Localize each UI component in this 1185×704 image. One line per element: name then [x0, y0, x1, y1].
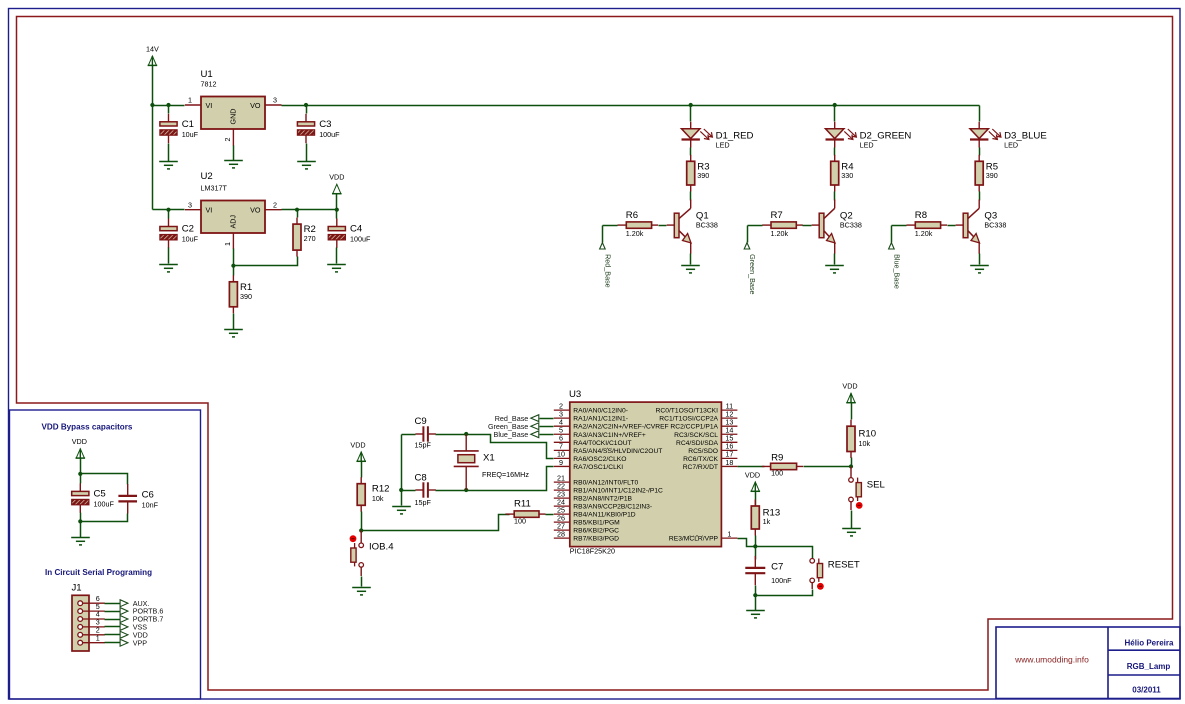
- svg-text:R6: R6: [626, 210, 638, 221]
- resistor R11: [505, 498, 545, 525]
- wire IOB.4 to ground: [361, 577, 363, 587]
- power VDD bypass: [72, 437, 87, 458]
- svg-text:VDD: VDD: [350, 440, 365, 449]
- junction IOB.4 node: [359, 528, 363, 532]
- output terminal VPP: [120, 638, 147, 647]
- svg-text:VI: VI: [206, 206, 213, 215]
- wire RESET bottom stem: [811, 583, 813, 589]
- svg-text:RA4/T0CKI/C1OUT: RA4/T0CKI/C1OUT: [573, 440, 631, 447]
- svg-text:Hélio Pereira: Hélio Pereira: [1125, 639, 1174, 648]
- svg-text:10uF: 10uF: [182, 130, 199, 139]
- svg-text:BC338: BC338: [696, 221, 718, 230]
- wire down to Green_Base terminal: [747, 226, 749, 243]
- svg-text:X1: X1: [483, 452, 495, 463]
- wire VDD to R10: [851, 403, 853, 420]
- bottom-left sub panel border (blue): [10, 410, 201, 699]
- svg-text:C8: C8: [415, 473, 427, 484]
- svg-text:RB6/KBI2/PGC: RB6/KBI2/PGC: [573, 528, 619, 535]
- wire D3_BLUE to R5: [979, 148, 981, 156]
- resistor R3: [687, 155, 710, 192]
- ground Q3: [970, 266, 989, 273]
- svg-text:C9: C9: [415, 416, 427, 427]
- wire C9 to X1 top: [436, 434, 467, 436]
- svg-text:270: 270: [304, 234, 316, 243]
- svg-text:14V: 14V: [146, 44, 159, 53]
- wire C5 to bypass bottom: [80, 513, 82, 522]
- wire pin 18 to R9: [738, 466, 765, 468]
- wire VDD to bypass node: [80, 459, 82, 474]
- junction 14V rail: [150, 103, 154, 107]
- regulator U2 LM317T: [185, 171, 282, 249]
- power VDD R12: [350, 440, 366, 461]
- junction SEL node: [849, 464, 853, 468]
- svg-text:2: 2: [273, 200, 277, 209]
- svg-text:100: 100: [514, 516, 526, 525]
- svg-text:100uF: 100uF: [350, 235, 371, 244]
- svg-text:7812: 7812: [201, 80, 217, 89]
- wire rail to D1_RED: [690, 106, 692, 122]
- wire IOB.4 bottom stem: [360, 567, 362, 576]
- output terminal Blue_Base: [494, 430, 539, 439]
- wire J1 pin 4: [105, 619, 121, 621]
- ground Q2: [825, 266, 844, 273]
- resistor R5: [975, 155, 998, 192]
- ground C3: [297, 162, 316, 169]
- title block frame: [996, 627, 1180, 699]
- svg-text:RA7/OSC1/CLKI: RA7/OSC1/CLKI: [573, 464, 623, 471]
- svg-text:RA6/OSC2/CLKO: RA6/OSC2/CLKO: [573, 456, 626, 463]
- wire to U2 VI: [153, 209, 185, 211]
- input terminal Blue_Base: [889, 243, 902, 289]
- wire R8 to base: [948, 225, 956, 227]
- wire terminal to R7: [748, 225, 763, 227]
- wire X1 to OSC2 pin 10: [467, 435, 554, 459]
- wire C1 to ground: [168, 144, 170, 162]
- svg-text:VDD Bypass capacitors: VDD Bypass capacitors: [42, 423, 133, 432]
- wire J1 pin 5: [105, 611, 121, 613]
- resistor R10: [847, 420, 876, 458]
- svg-text:FREQ=16MHz: FREQ=16MHz: [482, 470, 529, 479]
- input terminal Green_Base: [744, 243, 757, 295]
- svg-text:9: 9: [559, 458, 563, 467]
- wire terminal to R6: [603, 225, 618, 227]
- svg-text:PIC18F25K20: PIC18F25K20: [570, 546, 615, 555]
- wire C4 to ground: [336, 248, 338, 264]
- svg-text:1.20k: 1.20k: [771, 229, 789, 238]
- svg-text:RB3/AN9/CCP2B/C12IN3-: RB3/AN9/CCP2B/C12IN3-: [573, 504, 652, 511]
- resistor R1: [229, 275, 252, 313]
- svg-text:U3: U3: [569, 389, 581, 400]
- junction rail col 2: [833, 103, 837, 107]
- wire to C8 left: [402, 490, 416, 492]
- wire C9-C8 left trunk: [401, 435, 403, 491]
- wire R9 to SEL node: [804, 466, 852, 468]
- wire R1 to ground: [233, 314, 235, 330]
- wire R2 bottom to ADJ: [234, 257, 298, 266]
- svg-text:Green_Base: Green_Base: [748, 254, 757, 294]
- svg-text:LED: LED: [1004, 141, 1018, 150]
- svg-text:BC338: BC338: [840, 221, 862, 230]
- wire D2_GREEN to R4: [834, 148, 836, 156]
- junction X1 bottom: [464, 488, 468, 492]
- svg-text:BC338: BC338: [984, 221, 1006, 230]
- ground IOB.4: [352, 588, 371, 595]
- wire R11 to pin 25: [546, 514, 554, 516]
- wire Q1 emitter to ground: [690, 254, 692, 265]
- LED D1_RED: [682, 122, 754, 150]
- svg-text:C3: C3: [319, 119, 331, 130]
- wire U1 GND to ground: [233, 146, 235, 161]
- svg-text:RC4/SDI/SDA: RC4/SDI/SDA: [676, 440, 719, 447]
- wire SEL stem: [850, 466, 852, 477]
- junction C2 tap: [166, 208, 170, 212]
- wire C8 to X1 bottom: [436, 490, 467, 492]
- wire J1 pin 6: [105, 603, 121, 605]
- wire IOB.4 node to R11: [362, 515, 510, 531]
- svg-text:U2: U2: [201, 171, 213, 182]
- svg-text:1: 1: [96, 633, 100, 642]
- wire to C3: [306, 106, 308, 114]
- capacitor C7: [745, 556, 792, 585]
- wire to C1: [168, 106, 170, 114]
- svg-text:10uF: 10uF: [182, 235, 199, 244]
- ground bypass: [71, 538, 90, 545]
- wire to C2: [168, 210, 170, 219]
- resistor R2: [293, 218, 316, 257]
- wire R10 to SEL node: [851, 458, 853, 467]
- svg-text:U1: U1: [201, 69, 213, 80]
- LED D2_GREEN: [826, 122, 912, 150]
- svg-text:SEL: SEL: [867, 479, 886, 490]
- svg-text:RESET: RESET: [828, 560, 860, 571]
- wire Blue_Base to pin 5: [540, 434, 554, 436]
- svg-text:C6: C6: [142, 489, 154, 500]
- wire R3 to Q1 collector: [690, 192, 692, 201]
- svg-text:RC1/T1OSI/CCP2A: RC1/T1OSI/CCP2A: [659, 416, 718, 423]
- wire MCLR node to RESET: [756, 547, 813, 559]
- microcontroller U3 PIC18F25K20: [554, 389, 738, 556]
- svg-text:Blue_Base: Blue_Base: [494, 430, 529, 439]
- resistor R7: [762, 210, 803, 238]
- transistor Q2 BC338: [812, 200, 862, 254]
- capacitor C8: [415, 473, 436, 507]
- svg-text:1: 1: [727, 529, 731, 538]
- wire down to Blue_Base terminal: [891, 226, 893, 243]
- wire to U1 VI: [153, 105, 185, 107]
- capacitor C1: [160, 114, 199, 143]
- svg-text:10k: 10k: [859, 439, 871, 448]
- wire to C4: [336, 210, 338, 219]
- wire D1_RED to R3: [690, 148, 692, 156]
- wire X1 to OSC1 pin 9: [467, 467, 554, 491]
- svg-text:390: 390: [240, 292, 252, 301]
- svg-text:VDD: VDD: [329, 173, 344, 182]
- svg-text:330: 330: [841, 171, 853, 180]
- svg-text:28: 28: [557, 529, 565, 538]
- svg-text:C5: C5: [94, 489, 106, 500]
- ground R1: [224, 330, 243, 337]
- svg-text:RA0/AN0/C12IN0-: RA0/AN0/C12IN0-: [573, 408, 628, 415]
- wire Red_Base to pin 3: [540, 418, 554, 420]
- push button IOB.4: [350, 535, 364, 567]
- svg-text:IOB.4: IOB.4: [369, 541, 394, 552]
- wire MCLR node to C7: [755, 547, 757, 560]
- capacitor C4: [328, 219, 371, 248]
- wire pin 1 to MCLR node: [738, 539, 756, 547]
- svg-text:VDD: VDD: [745, 470, 760, 479]
- junction rail col 1: [689, 103, 693, 107]
- wire J1 pin 3: [105, 626, 121, 628]
- svg-text:2: 2: [223, 138, 232, 142]
- svg-text:LM317T: LM317T: [201, 184, 228, 193]
- junction bypass top: [78, 472, 82, 476]
- crystal X1: [454, 434, 530, 490]
- svg-text:1.20k: 1.20k: [915, 229, 933, 238]
- svg-text:VPP: VPP: [133, 638, 148, 647]
- svg-text:R11: R11: [514, 498, 531, 509]
- svg-text:VDD: VDD: [842, 382, 857, 391]
- svg-text:VI: VI: [206, 101, 213, 110]
- wire R6 to base: [659, 225, 667, 227]
- junction MCLR node: [753, 544, 757, 548]
- svg-text:RC5/SDO: RC5/SDO: [688, 448, 718, 455]
- svg-text:Red_Base: Red_Base: [603, 254, 612, 288]
- wire R7 to base: [803, 225, 812, 227]
- wire RESET to C7 bottom: [756, 590, 813, 596]
- junction R2 top: [295, 208, 299, 212]
- capacitor C3: [297, 114, 340, 143]
- wire trunk down to U2: [152, 106, 154, 210]
- svg-text:100uF: 100uF: [319, 130, 340, 139]
- output terminal AUX.: [120, 599, 149, 608]
- resistor R12: [357, 477, 389, 512]
- regulator U1 7812: [185, 69, 282, 146]
- output terminal VSS: [120, 623, 147, 632]
- push button SEL: [849, 478, 863, 509]
- wire Q2 emitter to ground: [834, 254, 836, 265]
- svg-text:Blue_Base: Blue_Base: [892, 254, 901, 289]
- wire U2 VO to VDD node: [282, 209, 337, 211]
- wire SEL to ground: [851, 511, 853, 529]
- ground SEL: [842, 529, 861, 536]
- wire VDD to R12: [361, 462, 363, 478]
- wire C2 to ground: [168, 248, 170, 264]
- svg-text:15pF: 15pF: [415, 498, 432, 507]
- output terminal VDD: [120, 630, 148, 639]
- resistor R4: [831, 155, 855, 192]
- resistor R13: [751, 500, 780, 536]
- wire 14V to rail: [152, 66, 154, 106]
- svg-text:R7: R7: [771, 210, 783, 221]
- svg-text:RB0/AN12/INT0/FLT0: RB0/AN12/INT0/FLT0: [573, 480, 638, 487]
- wire VDD arrow stem: [336, 194, 338, 210]
- wire C3 to ground: [306, 144, 308, 162]
- junction C1 tap: [166, 103, 170, 107]
- ground C4: [327, 265, 346, 272]
- transistor Q1 BC338: [667, 200, 718, 254]
- svg-text:RB5/KBI1/PGM: RB5/KBI1/PGM: [573, 520, 620, 527]
- svg-text:RA1/AN1/C12IN1-: RA1/AN1/C12IN1-: [573, 416, 628, 423]
- wire R12 to IOB.4 node: [361, 512, 363, 531]
- resistor R6: [618, 210, 659, 238]
- power VDD R13: [745, 470, 760, 491]
- wire R5 to Q3 collector: [979, 192, 981, 201]
- svg-text:10nF: 10nF: [142, 500, 159, 509]
- push button RESET: [810, 559, 824, 590]
- wire rail to D2_GREEN: [834, 106, 836, 122]
- svg-text:VDD: VDD: [72, 437, 87, 446]
- svg-text:VO: VO: [250, 206, 261, 215]
- svg-text:C1: C1: [182, 119, 194, 130]
- svg-text:RB1/AN10/INT1/C12IN2-/P1C: RB1/AN10/INT1/C12IN2-/P1C: [573, 488, 663, 495]
- wire Green_Base to pin 4: [540, 426, 554, 428]
- svg-text:RB7/KBI3/PGD: RB7/KBI3/PGD: [573, 536, 619, 543]
- wire bypass to ground: [80, 522, 82, 538]
- wire to R1: [233, 266, 235, 276]
- svg-text:VO: VO: [250, 101, 261, 110]
- svg-text:GND: GND: [228, 109, 237, 125]
- output terminal PORTB.6: [120, 607, 163, 616]
- svg-text:390: 390: [986, 171, 998, 180]
- svg-text:RC7/RX/DT: RC7/RX/DT: [683, 464, 718, 471]
- svg-text:3: 3: [188, 200, 192, 209]
- LED D3_BLUE: [970, 122, 1047, 150]
- svg-text:RC3/SCK/SCL: RC3/SCK/SCL: [674, 432, 718, 439]
- output terminal PORTB.7: [120, 615, 163, 624]
- junction bypass bottom: [78, 519, 82, 523]
- svg-text:RB2/AN8/INT2/P1B: RB2/AN8/INT2/P1B: [573, 496, 632, 503]
- wire trunk to ground: [401, 491, 403, 506]
- svg-text:18: 18: [725, 458, 733, 467]
- wire C7 to bottom node: [755, 586, 757, 596]
- svg-text:1: 1: [223, 242, 232, 246]
- wire Q3 emitter to ground: [979, 254, 981, 265]
- svg-text:100: 100: [771, 469, 783, 478]
- input terminal Red_Base: [600, 243, 613, 288]
- capacitor C2: [160, 219, 199, 248]
- ground C2: [159, 265, 178, 272]
- output terminal Green_Base: [488, 422, 539, 431]
- svg-text:R9: R9: [771, 453, 783, 464]
- wire terminal to R8: [892, 225, 907, 227]
- transistor Q3 BC338: [956, 200, 1007, 254]
- svg-text:C2: C2: [182, 224, 194, 235]
- svg-text:RA2/AN2/C2IN+/VREF-/CVREF: RA2/AN2/C2IN+/VREF-/CVREF: [573, 424, 668, 431]
- power 14V: [146, 44, 159, 65]
- wire VDD to R13: [755, 492, 757, 506]
- junction C4 top: [335, 208, 339, 212]
- wire to C5: [80, 474, 82, 484]
- capacitor C5: [72, 483, 115, 512]
- power VDD main: [329, 173, 344, 194]
- wire IOB.4 stem: [360, 531, 362, 544]
- svg-text:RB4/AN11/KBI0/P1D: RB4/AN11/KBI0/P1D: [573, 512, 635, 519]
- wire ADJ down: [233, 249, 235, 266]
- junction X1 top: [464, 432, 468, 436]
- wire bypass bottom to C6: [81, 514, 128, 522]
- junction ADJ node: [231, 264, 235, 268]
- svg-text:www.umodding.info: www.umodding.info: [1014, 655, 1089, 665]
- svg-text:100uF: 100uF: [94, 499, 115, 508]
- svg-text:100nF: 100nF: [771, 576, 792, 585]
- wire to R2: [297, 210, 299, 218]
- svg-text:RC6/TX/CK: RC6/TX/CK: [683, 456, 718, 463]
- wire 12V rail: [282, 105, 980, 107]
- svg-text:RGB_Lamp: RGB_Lamp: [1127, 662, 1171, 671]
- svg-text:C4: C4: [350, 224, 363, 235]
- svg-text:RC0/T1OSO/T13CKI: RC0/T1OSO/T13CKI: [656, 408, 719, 415]
- svg-text:15pF: 15pF: [415, 441, 432, 450]
- svg-text:390: 390: [697, 171, 709, 180]
- wire J1 pin 2: [105, 634, 121, 636]
- capacitor C9: [415, 416, 436, 450]
- svg-text:R8: R8: [915, 210, 927, 221]
- svg-text:LED: LED: [860, 141, 874, 150]
- svg-text:LED: LED: [716, 141, 730, 150]
- svg-text:RA3/AN3/C1IN+/VREF+: RA3/AN3/C1IN+/VREF+: [573, 432, 646, 439]
- svg-text:RE3/MCLR/VPP: RE3/MCLR/VPP: [669, 536, 719, 543]
- resistor R8: [907, 210, 948, 238]
- svg-text:1k: 1k: [763, 517, 771, 526]
- svg-text:1: 1: [188, 96, 192, 105]
- ground crystal caps: [392, 507, 411, 514]
- wire bypass top to C6: [81, 474, 128, 485]
- svg-text:3: 3: [273, 96, 277, 105]
- svg-text:10k: 10k: [372, 494, 384, 503]
- wire down to Red_Base terminal: [602, 226, 604, 243]
- power VDD R10: [842, 382, 857, 403]
- ground C7: [746, 611, 765, 618]
- wire R4 to Q2 collector: [834, 192, 836, 201]
- junction C7 bottom: [753, 593, 757, 597]
- svg-text:J1: J1: [72, 583, 82, 594]
- svg-text:03/2011: 03/2011: [1132, 686, 1161, 695]
- wire J1 pin 1: [105, 642, 121, 644]
- wire SEL bottom stem: [850, 502, 852, 510]
- ground C1: [159, 162, 178, 169]
- connector J1: [72, 583, 105, 652]
- svg-text:R12: R12: [372, 484, 390, 495]
- ground U1: [224, 161, 243, 168]
- svg-text:RA5/AN4/SS/HLVDIN/C2OUT: RA5/AN4/SS/HLVDIN/C2OUT: [573, 448, 662, 455]
- capacitor C6: [118, 484, 158, 514]
- resistor R9: [762, 453, 803, 478]
- output terminal Red_Base: [495, 414, 539, 423]
- wire rail to D3_BLUE: [979, 106, 981, 122]
- svg-text:In Circuit Serial Programing: In Circuit Serial Programing: [45, 568, 152, 577]
- junction C8 ground tap: [399, 488, 403, 492]
- svg-text:1.20k: 1.20k: [626, 229, 644, 238]
- svg-text:RC2/CCP1/P1A: RC2/CCP1/P1A: [670, 424, 718, 431]
- wire to C9 left: [402, 434, 416, 436]
- junction C3 tap: [304, 103, 308, 107]
- svg-text:ADJ: ADJ: [228, 215, 237, 229]
- ground Q1: [681, 266, 700, 273]
- wire R13 to MCLR node: [755, 536, 757, 547]
- svg-text:C7: C7: [771, 562, 783, 573]
- wire to ground C7: [755, 596, 757, 611]
